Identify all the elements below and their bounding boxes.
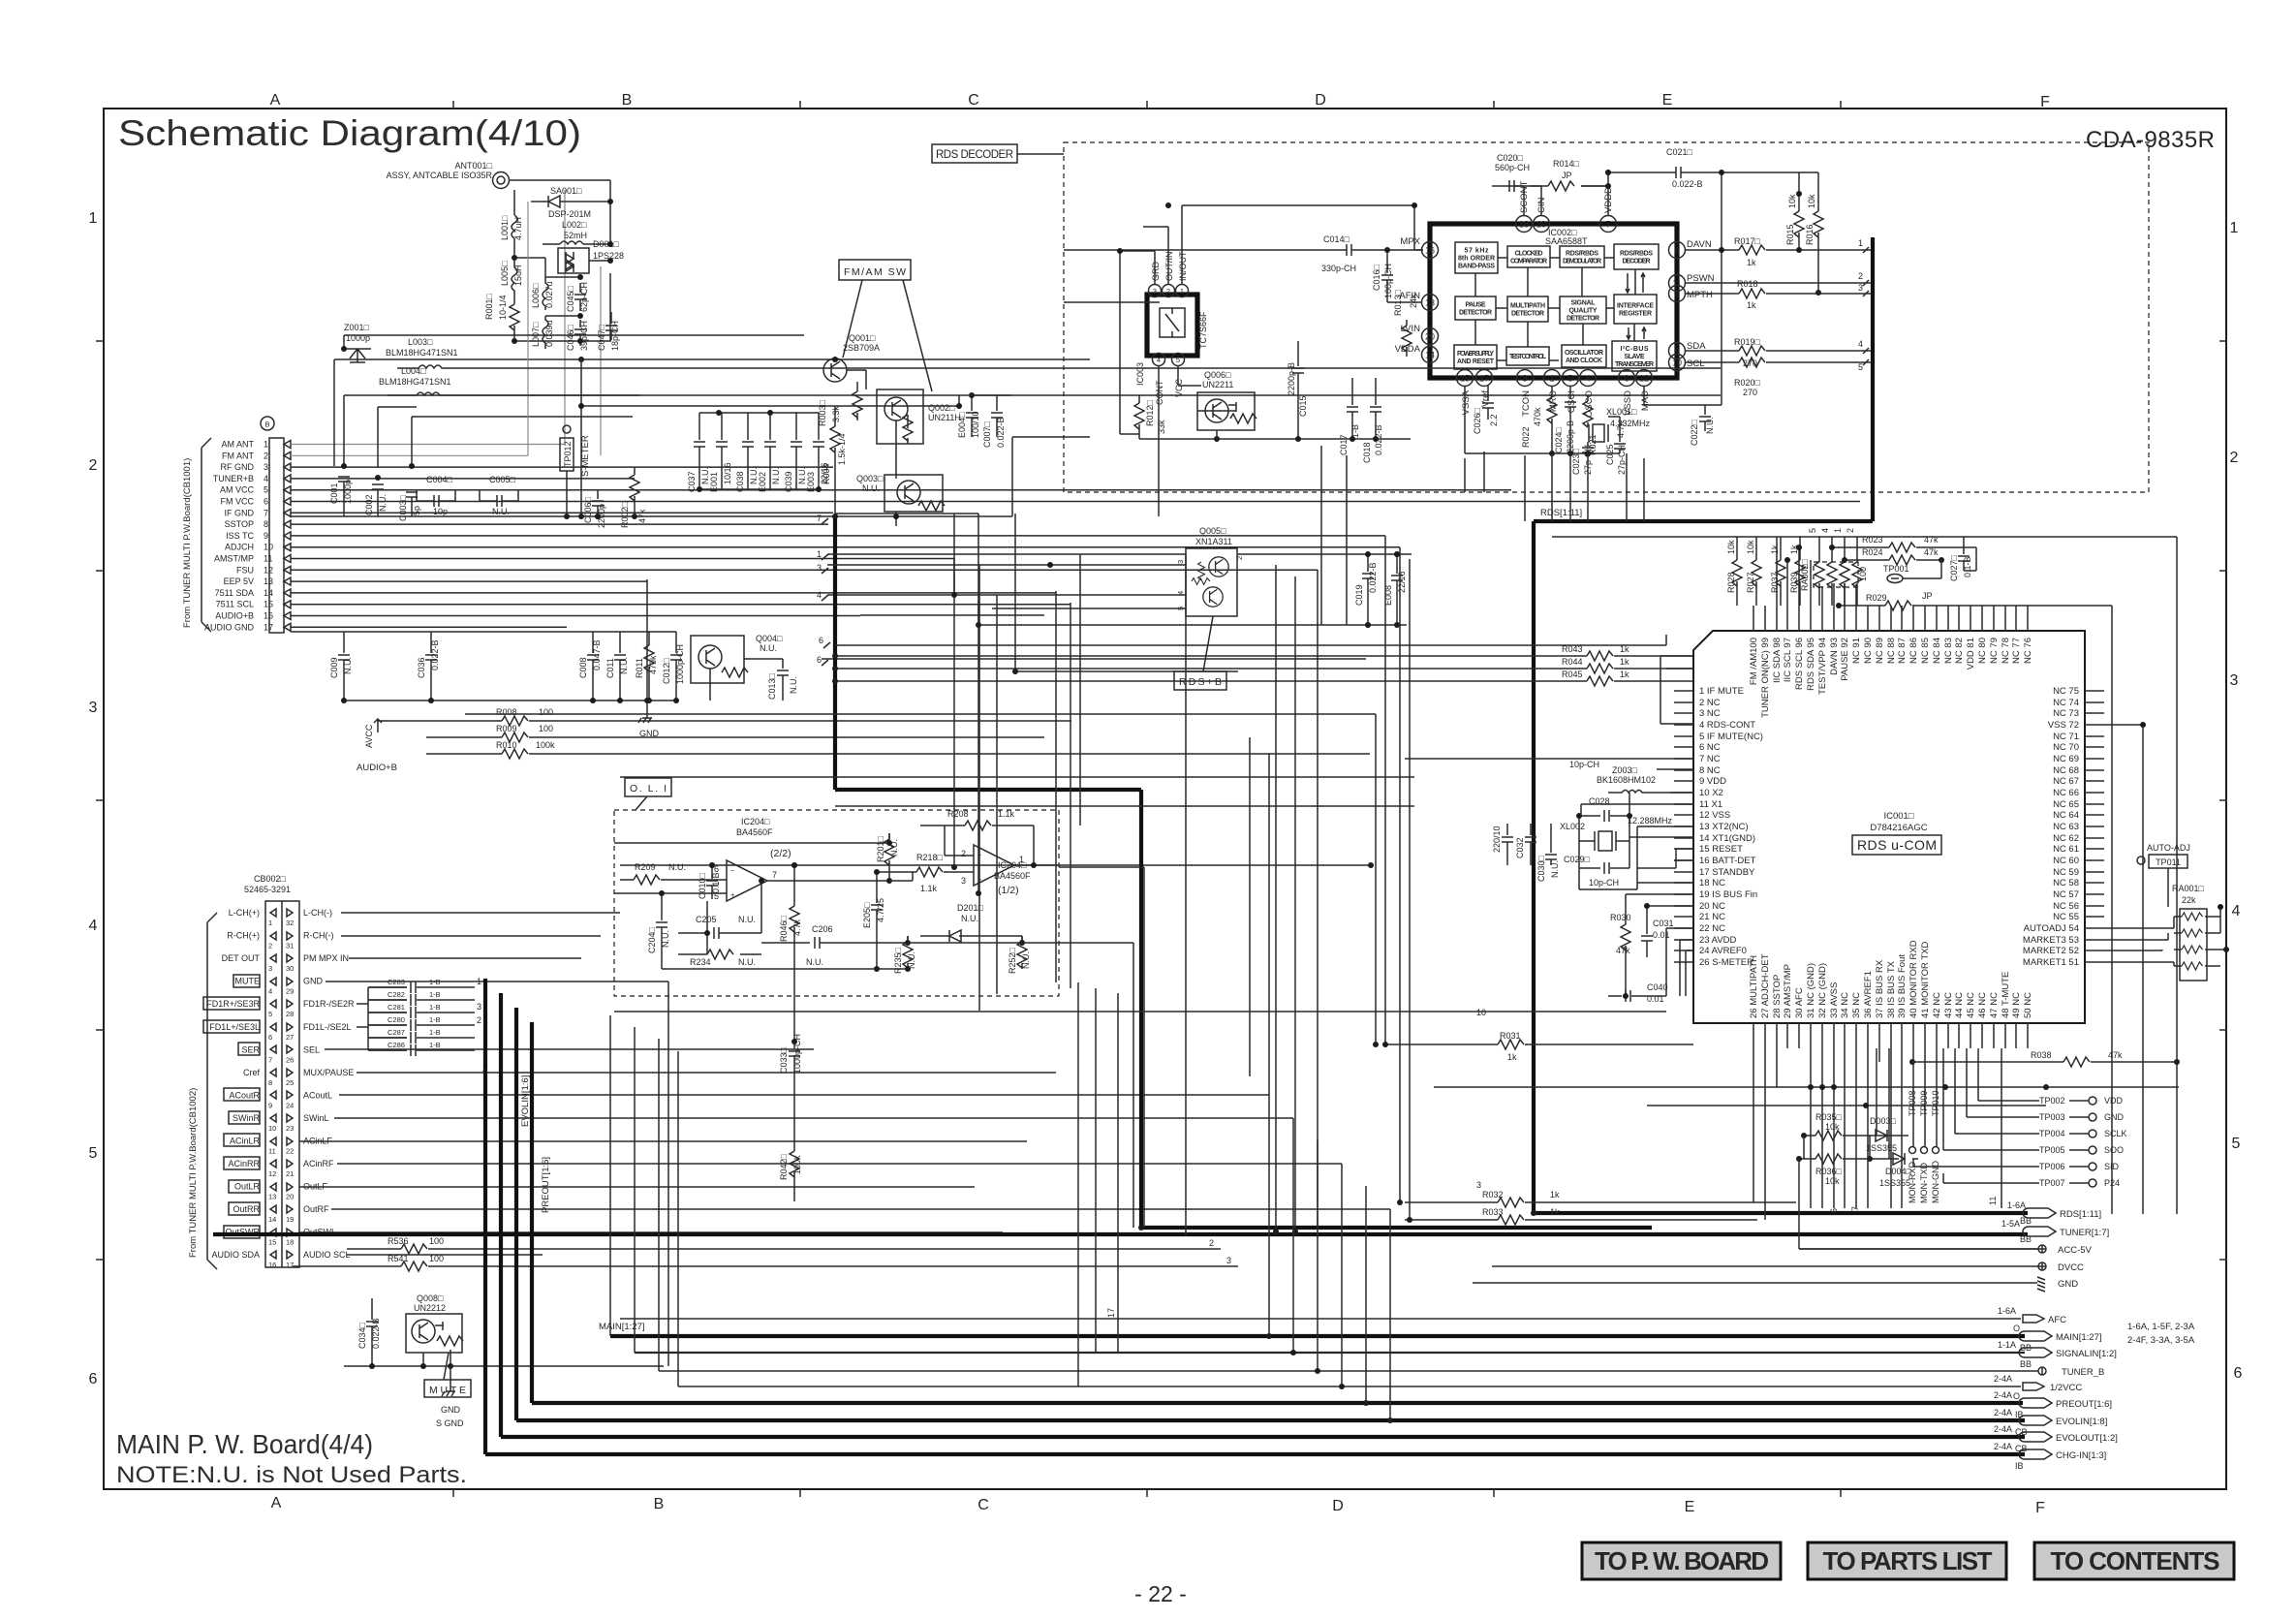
- svg-text:AUDIO+B: AUDIO+B: [357, 763, 397, 773]
- svg-text:2-4F, 3-3A, 3-5A: 2-4F, 3-3A, 3-5A: [2127, 1335, 2195, 1346]
- capacitor C007 0.022-B: [982, 395, 1006, 448]
- surge arrester SA001 DSP-201M: [531, 186, 591, 219]
- svg-text:L005□: L005□: [500, 261, 510, 286]
- svg-text:19: 19: [286, 1215, 294, 1224]
- top rail to R015/R016: [1637, 171, 1681, 173]
- svg-text:47 NC: 47 NC: [1989, 992, 2000, 1018]
- resistor R015 10k vertical: [1785, 194, 1804, 250]
- svg-text:3 NC: 3 NC: [1699, 708, 1721, 719]
- jog wires rows 5-6 to caps: [368, 987, 407, 1050]
- svg-text:4: 4: [268, 987, 272, 996]
- svg-text:6: 6: [268, 1033, 272, 1042]
- svg-text:12.288MHz: 12.288MHz: [1628, 816, 1673, 826]
- svg-text:18: 18: [286, 1238, 294, 1247]
- svg-text:36 AVREF1: 36 AVREF1: [1863, 971, 1874, 1018]
- svg-text:5: 5: [1176, 356, 1180, 364]
- svg-text:OutLR: OutLR: [234, 1182, 261, 1192]
- svg-text:TP003: TP003: [2039, 1112, 2065, 1122]
- svg-text:NC 65: NC 65: [2053, 799, 2079, 810]
- svg-text:4: 4: [2232, 903, 2241, 919]
- svg-text:AMST/MP: AMST/MP: [214, 554, 254, 564]
- svg-text:NC 68: NC 68: [2053, 765, 2079, 776]
- junction dots on rails: [832, 653, 838, 659]
- svg-text:40 MONITOR RXD: 40 MONITOR RXD: [1908, 940, 1919, 1018]
- svg-text:1: 1: [268, 919, 272, 927]
- svg-text:2 NC: 2 NC: [1699, 698, 1721, 708]
- svg-text:R016: R016: [1805, 224, 1815, 245]
- svg-text:12: 12: [268, 1169, 276, 1178]
- CB1002 row 11/22: [224, 1134, 333, 1156]
- svg-text:10k: 10k: [1807, 194, 1816, 208]
- svg-text:I²C-BUS: I²C-BUS: [1621, 346, 1649, 353]
- svg-text:2-4A: 2-4A: [1994, 1408, 2012, 1417]
- vertical feeders from CB1001 rows down to lower rows: [1318, 536, 1410, 1228]
- CB1002 row 12/21: [224, 1157, 334, 1178]
- svg-text:R018: R018: [1737, 279, 1758, 289]
- svg-text:3: 3: [1522, 374, 1527, 384]
- svg-text:ACinLR: ACinLR: [230, 1137, 261, 1146]
- svg-text:IN/OUT: IN/OUT: [1178, 251, 1188, 281]
- S-METER wire into decoder: [1064, 250, 1267, 516]
- capacitor C031 0.01: [1641, 911, 1674, 957]
- wire PSWN: [1685, 282, 1871, 284]
- svg-text:26 S-METER: 26 S-METER: [1699, 957, 1753, 968]
- test control block: [1506, 347, 1549, 365]
- svg-text:5: 5: [1567, 374, 1572, 384]
- svg-text:R015: R015: [1785, 224, 1795, 245]
- svg-text:VDD 81: VDD 81: [1966, 638, 1976, 670]
- bandpass filter block: [1455, 242, 1498, 273]
- svg-text:7: 7: [264, 508, 268, 517]
- IC001 right pin labels: [2023, 686, 2079, 968]
- transistor Q003 N.U.: [856, 474, 945, 512]
- svg-text:11: 11: [264, 554, 272, 564]
- svg-text:MARKET1 51: MARKET1 51: [2023, 957, 2079, 968]
- vertical taps from top pins to rails: [1777, 537, 1856, 606]
- svg-text:2-4A: 2-4A: [1994, 1390, 2012, 1400]
- resistor R002 47k: [620, 467, 647, 528]
- svg-text:7511 SDA: 7511 SDA: [215, 588, 254, 598]
- svg-text:21: 21: [286, 1169, 294, 1178]
- svg-text:2-4A: 2-4A: [1994, 1442, 2012, 1451]
- svg-text:3: 3: [1226, 1256, 1231, 1265]
- svg-text:TCON: TCON: [1521, 390, 1532, 417]
- svg-text:2: 2: [89, 457, 98, 474]
- svg-text:0.022-B: 0.022-B: [1368, 562, 1378, 593]
- svg-text:DETECTOR: DETECTOR: [1511, 311, 1544, 318]
- svg-text:ACoutR: ACoutR: [229, 1090, 260, 1100]
- svg-text:1: 1: [264, 440, 268, 450]
- svg-text:IC001□: IC001□: [1883, 811, 1913, 822]
- capacitor C002 N.U.: [364, 484, 388, 516]
- svg-text:DVCC: DVCC: [2058, 1262, 2084, 1273]
- svg-text:5: 5: [1858, 362, 1863, 372]
- svg-text:AVCC: AVCC: [364, 724, 374, 748]
- thin vertical feeders: [610, 1015, 678, 1386]
- ground symbol mid-left: [646, 701, 648, 712]
- resistor R014 JP: [1531, 159, 1608, 191]
- svg-text:MON-RXD: MON-RXD: [1908, 1162, 1917, 1203]
- svg-text:3: 3: [477, 1002, 481, 1012]
- svg-text:C008: C008: [578, 657, 588, 678]
- svg-text:C: C: [977, 1497, 989, 1513]
- svg-text:7: 7: [268, 1055, 272, 1064]
- svg-text:R001□: R001□: [484, 293, 494, 320]
- svg-text:100k: 100k: [536, 740, 555, 750]
- svg-text:2-4A: 2-4A: [1994, 1424, 2012, 1434]
- svg-text:R002□: R002□: [620, 501, 630, 528]
- svg-text:R027: R027: [1746, 572, 1755, 593]
- svg-text:10p-CH: 10p-CH: [1589, 878, 1619, 888]
- svg-text:1: 1: [477, 977, 481, 986]
- svg-text:NC 61: NC 61: [2053, 844, 2079, 855]
- svg-text:DETECTOR: DETECTOR: [1567, 316, 1599, 323]
- svg-text:R201□: R201□: [876, 835, 885, 862]
- svg-text:19: 19: [1536, 220, 1546, 230]
- svg-text:AUDIO SDA: AUDIO SDA: [211, 1250, 260, 1260]
- svg-text:13: 13: [1425, 298, 1435, 308]
- capacitor C017 1-B: [1339, 378, 1360, 455]
- MUTE label box: [424, 1353, 471, 1397]
- svg-text:C018: C018: [1362, 442, 1372, 463]
- CB1002 row 8/25: [243, 1068, 354, 1087]
- resistor R235 N.U.: [893, 936, 916, 974]
- resistor R036 10k: [1799, 1154, 1881, 1186]
- svg-text:34 NC: 34 NC: [1840, 992, 1850, 1018]
- svg-text:EEP 5V: EEP 5V: [224, 576, 254, 586]
- svg-text:TP005: TP005: [2039, 1145, 2065, 1155]
- wires chip right pins to RA001: [2104, 917, 2174, 966]
- svg-text:NC 84: NC 84: [1932, 638, 1942, 664]
- svg-text:1-5A: 1-5A: [2001, 1219, 2020, 1229]
- svg-text:14: 14: [268, 1215, 276, 1224]
- wires chip left: [1405, 759, 1693, 868]
- svg-text:IB: IB: [2015, 1461, 2024, 1471]
- svg-text:C014□: C014□: [1323, 234, 1350, 244]
- CB1002 row wires: [341, 912, 620, 914]
- CB1002 row 15/18: [224, 1226, 336, 1247]
- svg-text:R019□: R019□: [1734, 337, 1761, 347]
- FM/AM SW label box: [839, 260, 932, 391]
- svg-text:26 MULTIPATH: 26 MULTIPATH: [1749, 955, 1759, 1018]
- capacitor C003 5p: [398, 492, 421, 521]
- resistor R209 N.U.: [620, 862, 686, 885]
- svg-text:IIC SCL 97: IIC SCL 97: [1783, 638, 1793, 682]
- transistor Q001 2SB709A: [823, 333, 880, 382]
- svg-text:SAA6588T: SAA6588T: [1545, 236, 1588, 246]
- svg-text:IC204□: IC204□: [741, 817, 770, 826]
- svg-text:A: A: [271, 1495, 282, 1511]
- SIGNALIN terminal: [635, 1340, 2117, 1369]
- svg-text:7: 7: [1850, 1206, 1860, 1211]
- interface register block: [1614, 295, 1657, 324]
- inductor L005 15uH: [500, 258, 523, 298]
- svg-text:S GND: S GND: [436, 1418, 464, 1428]
- svg-text:6 NC: 6 NC: [1699, 742, 1721, 753]
- extra junction dots texture: [341, 463, 347, 469]
- svg-text:UN211H: UN211H: [928, 413, 961, 422]
- svg-text:1: 1: [817, 549, 822, 559]
- svg-text:C013□: C013□: [767, 672, 777, 700]
- svg-text:OUT/IN: OUT/IN: [1164, 252, 1174, 282]
- svg-text:1-1A: 1-1A: [1998, 1340, 2016, 1350]
- svg-text:SOO: SOO: [2104, 1145, 2124, 1155]
- svg-text:31: 31: [286, 942, 294, 950]
- svg-text:15: 15: [268, 1238, 276, 1247]
- svg-text:52mH: 52mH: [564, 231, 587, 240]
- diode D201 N.U.: [920, 903, 1017, 942]
- resistor R010 100k: [426, 740, 1370, 759]
- svg-text:R020□: R020□: [1734, 378, 1761, 388]
- svg-text:220/10: 220/10: [1492, 826, 1502, 853]
- svg-text:100p-CH: 100p-CH: [1383, 264, 1393, 298]
- svg-text:4: 4: [1820, 528, 1830, 533]
- svg-text:7511 SCL: 7511 SCL: [216, 600, 254, 609]
- svg-text:R039: R039: [1789, 572, 1799, 593]
- svg-text:DAVN 93: DAVN 93: [1829, 638, 1840, 675]
- svg-text:0.022-B: 0.022-B: [1672, 179, 1703, 189]
- svg-text:SIGNALIN[1:2]: SIGNALIN[1:2]: [2056, 1349, 2117, 1359]
- RDS/RBDS demodulator block: [1560, 246, 1604, 267]
- svg-text:2: 2: [1235, 556, 1244, 560]
- svg-text:TUNER ON(NC) 99: TUNER ON(NC) 99: [1760, 638, 1771, 718]
- svg-text:NC 80: NC 80: [1977, 638, 1988, 664]
- IC001 left pin stubs: [1674, 691, 1693, 962]
- svg-text:TC7S66F: TC7S66F: [1198, 311, 1208, 349]
- resistor R003 3.3k vertical: [818, 382, 862, 426]
- svg-text:C021□: C021□: [1666, 147, 1693, 157]
- svg-text:B: B: [622, 92, 633, 109]
- svg-text:9: 9: [264, 531, 268, 541]
- svg-text:NC 90: NC 90: [1863, 638, 1874, 664]
- svg-text:10k: 10k: [1746, 540, 1755, 554]
- svg-text:28: 28: [286, 1010, 294, 1018]
- svg-text:C046□: C046□: [566, 324, 575, 351]
- svg-text:R209: R209: [635, 862, 656, 872]
- capacitor C010 0.1-B: [698, 865, 721, 899]
- svg-text:6: 6: [264, 497, 268, 507]
- grid row numbers left: [89, 210, 98, 1387]
- svg-text:C027□: C027□: [1949, 554, 1959, 581]
- svg-text:Cref: Cref: [243, 1068, 261, 1077]
- svg-text:MAIN[1:27]: MAIN[1:27]: [599, 1322, 645, 1332]
- svg-text:DECODER: DECODER: [1623, 259, 1651, 265]
- svg-text:10: 10: [1476, 1008, 1486, 1017]
- resistor R004 1.5k-1/4 vertical: [822, 407, 847, 516]
- left edge long verticals x220 for TUNER bus: [212, 1231, 214, 1232]
- svg-text:MUX/PAUSE: MUX/PAUSE: [303, 1068, 354, 1077]
- resistor R030 47k: [1610, 911, 1631, 957]
- I2C-bus slave transceiver block: [1612, 341, 1657, 371]
- svg-text:AM ANT: AM ANT: [221, 440, 254, 450]
- svg-text:L004□: L004□: [401, 366, 426, 376]
- wire SCONT/CIN pins up: [1509, 186, 1541, 216]
- svg-text:42 NC: 42 NC: [1932, 992, 1942, 1018]
- svg-text:ACinRR: ACinRR: [228, 1159, 260, 1168]
- svg-text:AM VCC: AM VCC: [220, 485, 255, 495]
- capacitor C047 18p-CH: [597, 312, 620, 351]
- AUTO-ADJ test point TP011: [2137, 843, 2190, 907]
- svg-text:TUNER+B: TUNER+B: [213, 474, 254, 483]
- svg-text:NC 73: NC 73: [2053, 708, 2079, 719]
- svg-text:12: 12: [264, 565, 273, 575]
- svg-text:C010□: C010□: [698, 872, 707, 899]
- svg-text:3: 3: [1153, 287, 1157, 296]
- svg-text:6: 6: [89, 1371, 98, 1387]
- svg-text:PREOUT[1:6]: PREOUT[1:6]: [541, 1157, 551, 1213]
- R015/R016 bottoms join DAVN/PSWN: [1796, 247, 1802, 253]
- svg-text:10p-CH: 10p-CH: [1569, 760, 1599, 769]
- svg-text:6: 6: [1829, 1208, 1839, 1213]
- electrolytic E008 22/16: [1383, 554, 1407, 625]
- svg-text:1k: 1k: [1620, 657, 1629, 667]
- svg-text:AUTO-ADJ: AUTO-ADJ: [2147, 843, 2190, 853]
- svg-text:N.U.: N.U.: [760, 643, 777, 653]
- svg-text:L002□: L002□: [562, 220, 587, 230]
- svg-text:MULTIPATH: MULTIPATH: [1510, 303, 1545, 310]
- svg-text:2: 2: [264, 451, 268, 460]
- svg-text:1k: 1k: [1550, 1190, 1560, 1199]
- CB1002 row 7/26: [238, 1043, 320, 1064]
- resistor R029 JP: [1836, 591, 1933, 610]
- resistor R018 1k on MPTH line: [1685, 279, 1871, 310]
- svg-text:RA002□: RA002□: [1800, 558, 1810, 591]
- dashed box internal rails: [1139, 411, 1411, 439]
- svg-text:18 NC: 18 NC: [1699, 878, 1725, 888]
- svg-text:R024: R024: [1862, 547, 1883, 557]
- svg-text:AUDIO GND: AUDIO GND: [204, 622, 255, 632]
- resistor R042 100k: [779, 1143, 802, 1201]
- svg-text:TRANSCEIVER: TRANSCEIVER: [1615, 361, 1654, 368]
- svg-text:470k: 470k: [1533, 407, 1542, 426]
- svg-text:COMPARATOR: COMPARATOR: [1510, 259, 1547, 265]
- diode D004 1SS355: [1879, 1153, 1918, 1188]
- svg-text:17: 17: [1479, 374, 1489, 384]
- svg-text:R035□: R035□: [1815, 1112, 1843, 1122]
- top-left long rails: [344, 335, 1721, 395]
- svg-text:7: 7: [817, 514, 822, 523]
- IC002 signal names top rotated (SCONT CIN VDDD): [1519, 181, 1614, 213]
- svg-text:O: O: [2013, 1391, 2020, 1401]
- svg-text:C025: C025: [1605, 444, 1615, 465]
- svg-text:4.7uH: 4.7uH: [513, 217, 523, 240]
- TUNER terminal bus oval: [213, 1219, 2109, 1244]
- capacitor C025 27p-CH: [1605, 417, 1627, 475]
- svg-text:Q004□: Q004□: [756, 634, 783, 643]
- button TO PARTS LIST: [1808, 1542, 2006, 1579]
- svg-text:NC 57: NC 57: [2053, 889, 2079, 900]
- svg-text:12 VSS: 12 VSS: [1699, 810, 1730, 821]
- resistor R022 470k vertical: [1521, 386, 1557, 453]
- resistor R023 47k: [1829, 535, 1976, 552]
- svg-text:GND: GND: [441, 1405, 461, 1415]
- resistor R011 470k: [635, 632, 658, 701]
- corner drops from rows 764/778: [1250, 737, 1269, 1095]
- svg-text:EVOLIN[1:6]: EVOLIN[1:6]: [520, 1075, 531, 1127]
- rail R029 to right vertical: [1928, 606, 2112, 1214]
- svg-text:R-CH(+): R-CH(+): [227, 931, 260, 941]
- svg-text:FM VCC: FM VCC: [221, 497, 255, 507]
- svg-text:330p-CH: 330p-CH: [1321, 264, 1356, 273]
- svg-text:C205: C205: [696, 915, 717, 924]
- IC002 internal connection wires: [1496, 258, 1614, 360]
- resistor R038 47k: [1909, 1050, 2180, 1067]
- svg-text:1-B: 1-B: [429, 1015, 441, 1024]
- svg-text:C045□: C045□: [566, 285, 575, 312]
- electrolytic E205 4.7/25: [862, 872, 885, 969]
- node B circle: [261, 417, 274, 430]
- svg-text:Vref: Vref: [1480, 390, 1491, 407]
- capacitor C204 N.U.: [647, 891, 670, 969]
- svg-text:F: F: [2040, 94, 2050, 110]
- verticals C001 C002 C003 taps: [344, 395, 639, 467]
- inductor L006 0.027u: [531, 277, 554, 310]
- svg-text:R046□: R046□: [779, 915, 789, 942]
- svg-text:R004: R004: [822, 463, 831, 484]
- svg-text:16: 16: [264, 611, 273, 621]
- svg-text:22: 22: [286, 1147, 294, 1156]
- capacitor C014 330p-CH on MPX line: [1267, 234, 1422, 273]
- svg-text:VCC: VCC: [1174, 378, 1184, 397]
- svg-text:BA4560F: BA4560F: [736, 827, 773, 837]
- AFC terminal: [620, 1306, 2066, 1333]
- svg-text:OutRR: OutRR: [233, 1204, 260, 1214]
- interface register double arrows: [1628, 273, 1644, 339]
- capacitor C015 2200p-B: [1287, 341, 1308, 421]
- svg-text:NC 67: NC 67: [2053, 776, 2079, 787]
- rails passing under O.L.I: [213, 1012, 1488, 1017]
- mid vertical feeders right of O.L.I: [1078, 554, 1186, 1386]
- horizontal rows feeding Q005: [827, 554, 1186, 565]
- svg-text:1: 1: [2230, 220, 2239, 236]
- ground rail below IC002: [1465, 172, 1722, 453]
- svg-text:C016□: C016□: [1372, 264, 1381, 291]
- CB1002 row 2/31: [227, 931, 333, 950]
- svg-text:C036: C036: [417, 657, 426, 678]
- svg-text:R012□: R012□: [1145, 399, 1155, 426]
- svg-text:FM/AM SW: FM/AM SW: [844, 266, 906, 278]
- svg-text:C: C: [968, 92, 979, 109]
- capacitor C023 27p-CH: [1571, 442, 1594, 475]
- svg-text:PREOUT[1:6]: PREOUT[1:6]: [2056, 1399, 2112, 1410]
- svg-text:RF GND: RF GND: [221, 462, 255, 472]
- resistor R012 33k vertical: [1134, 395, 1166, 434]
- svg-text:20: 20: [286, 1193, 294, 1201]
- svg-text:OSCO: OSCO: [1584, 390, 1595, 418]
- svg-text:560p-CH: 560p-CH: [1495, 163, 1530, 172]
- DVCC terminal: [1492, 1262, 2084, 1273]
- svg-text:N.U.: N.U.: [789, 676, 798, 694]
- ferrite L003 BLM18HG471SN1: [386, 337, 461, 368]
- svg-text:FM /AM100: FM /AM100: [1749, 638, 1759, 685]
- ACC-5V terminal: [1799, 1245, 2093, 1256]
- svg-text:R536: R536: [388, 1236, 409, 1246]
- svg-text:TP009: TP009: [1919, 1090, 1929, 1116]
- capacitor C020 560p-CH: [1492, 153, 1531, 192]
- svg-text:22k: 22k: [2182, 895, 2196, 905]
- resistor R201 N.U.: [876, 833, 899, 882]
- svg-text:SCLK: SCLK: [2104, 1129, 2127, 1138]
- svg-text:9: 9: [268, 1101, 272, 1109]
- wires from R043-45 right ends to chip pins: [1660, 656, 1693, 724]
- grid ticks bottom: [453, 1489, 1841, 1497]
- O.L.I outputs heading right/down: [1017, 867, 1144, 1228]
- capacitor C028 10p-CH: [1569, 760, 1629, 822]
- svg-text:O. L. I: O. L. I: [630, 783, 667, 794]
- svg-text:F: F: [2035, 1500, 2045, 1516]
- svg-text:BAND-PASS: BAND-PASS: [1458, 264, 1495, 270]
- svg-text:1-B: 1-B: [429, 1028, 441, 1037]
